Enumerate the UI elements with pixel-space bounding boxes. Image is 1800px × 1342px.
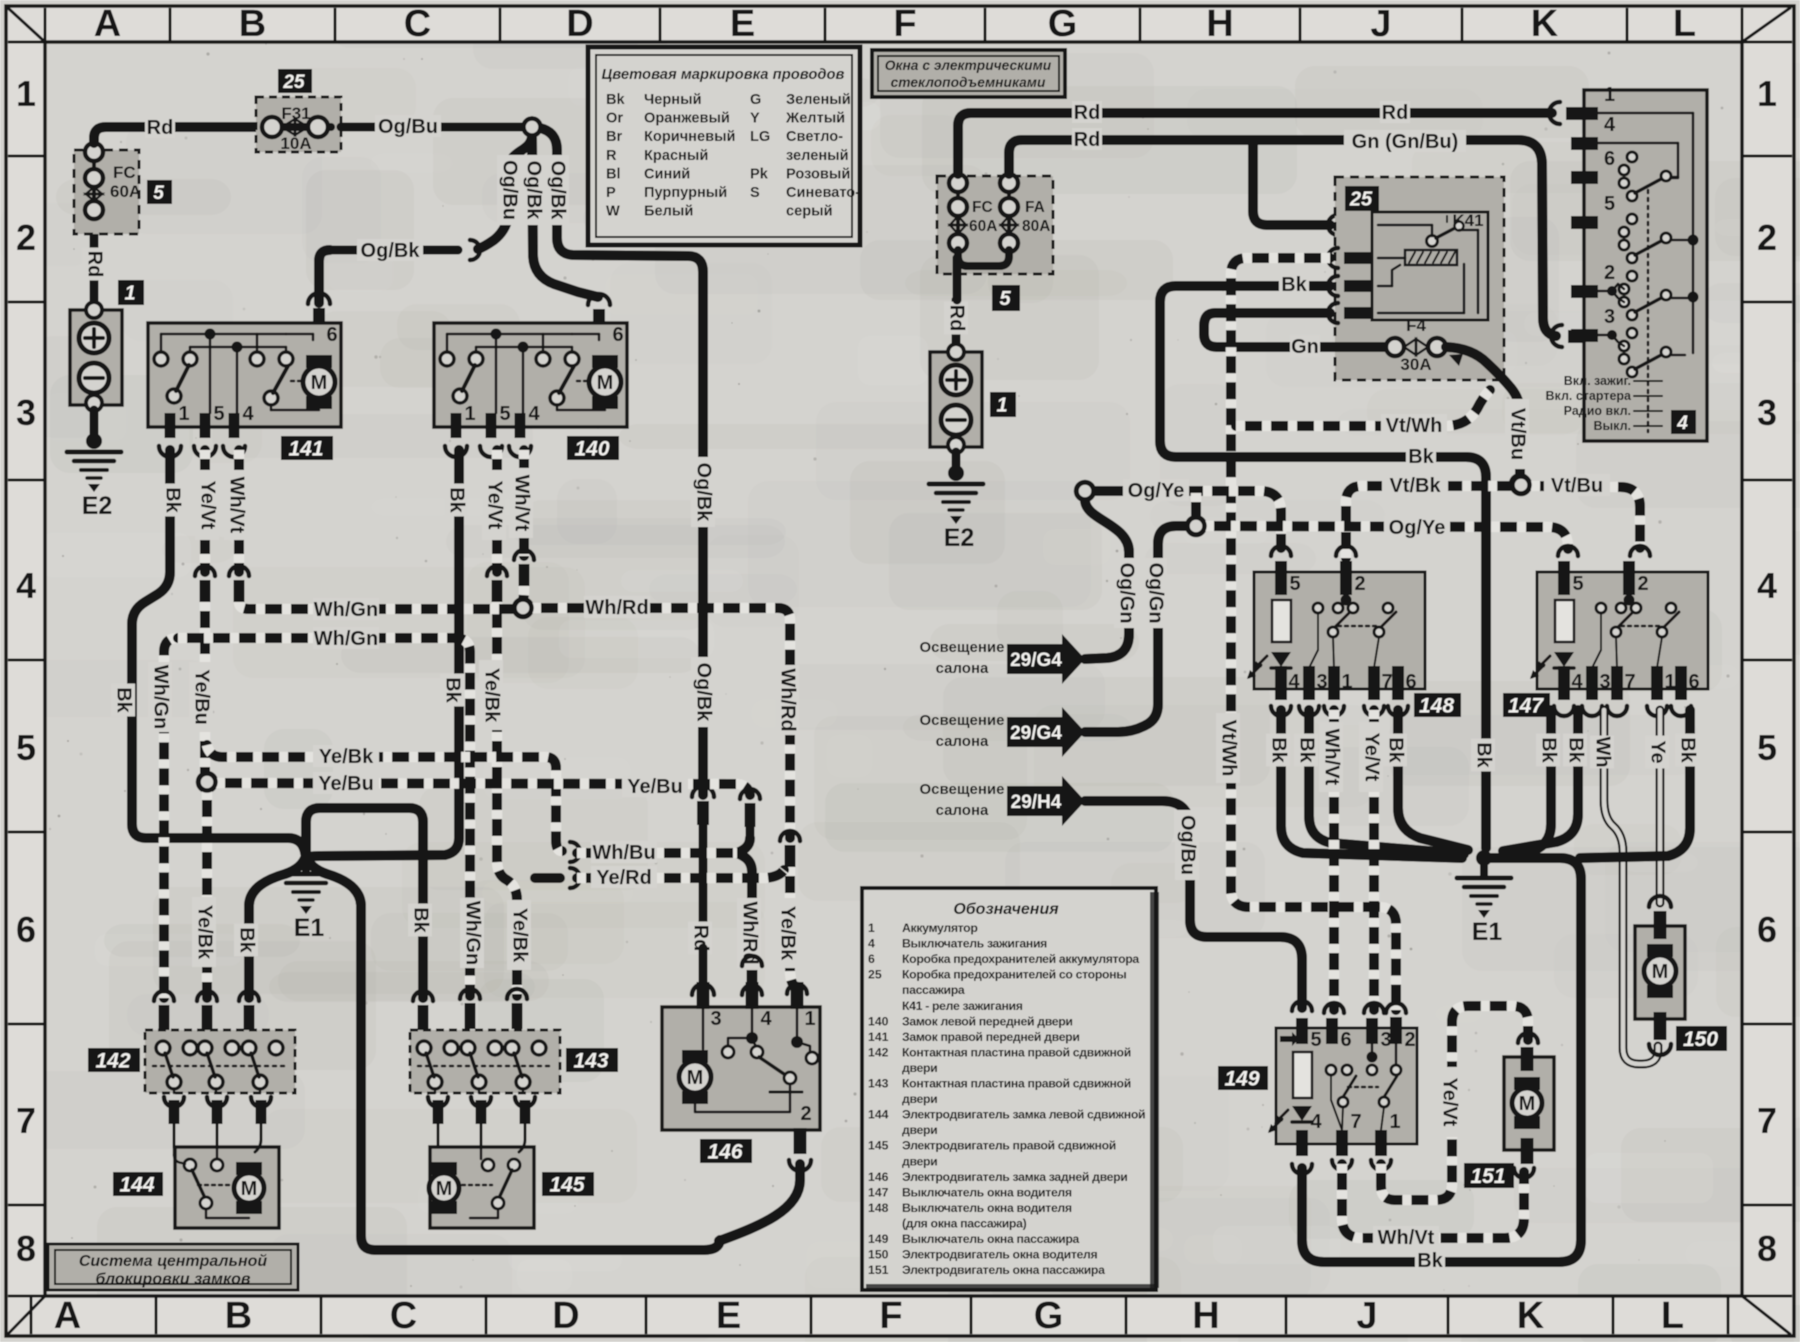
svg-text:H: H (1192, 1295, 1219, 1337)
svg-text:Выключатель окна водителя: Выключатель окна водителя (902, 1201, 1072, 1215)
svg-text:Обозначения: Обозначения (953, 901, 1059, 918)
svg-text:K: K (1531, 3, 1559, 45)
svg-text:D: D (566, 3, 593, 45)
svg-text:блокировки замков: блокировки замков (95, 1271, 250, 1288)
svg-text:F4: F4 (1406, 316, 1426, 335)
svg-text:двери: двери (902, 1154, 937, 1168)
svg-text:Gn: Gn (1291, 336, 1319, 358)
svg-text:зеленый: зеленый (786, 148, 849, 164)
svg-text:142: 142 (95, 1050, 130, 1073)
svg-text:149: 149 (868, 1232, 889, 1246)
svg-text:Og/Bk: Og/Bk (523, 161, 545, 221)
svg-text:4: 4 (1604, 114, 1616, 136)
svg-text:1: 1 (1341, 671, 1352, 693)
svg-text:Vt/Bu: Vt/Bu (1551, 475, 1603, 497)
svg-text:Bl: Bl (606, 166, 621, 182)
svg-text:25: 25 (282, 72, 305, 93)
svg-text:Вкл. зажиг.: Вкл. зажиг. (1564, 374, 1631, 388)
svg-text:Электродвигатель правой сдвижн: Электродвигатель правой сдвижной (902, 1139, 1116, 1153)
svg-text:Электродвигатель замка задней: Электродвигатель замка задней двери (902, 1170, 1128, 1184)
svg-text:5: 5 (213, 403, 224, 425)
svg-text:Vt/Bk: Vt/Bk (1389, 475, 1441, 497)
svg-text:L: L (1673, 3, 1696, 45)
svg-text:2: 2 (1757, 217, 1777, 258)
svg-text:стеклоподъемниками: стеклоподъемниками (891, 75, 1046, 90)
svg-text:5: 5 (16, 727, 36, 768)
svg-text:Wh/Vt: Wh/Vt (1321, 729, 1343, 786)
svg-text:Ye/Vt: Ye/Vt (197, 481, 219, 530)
svg-text:J: J (1356, 1295, 1377, 1337)
svg-text:Bk: Bk (1538, 737, 1560, 763)
svg-text:1: 1 (1757, 73, 1777, 114)
svg-text:5: 5 (153, 183, 164, 204)
svg-text:C: C (404, 3, 431, 45)
svg-text:1: 1 (1664, 671, 1675, 693)
svg-text:148: 148 (868, 1201, 889, 1215)
svg-text:4: 4 (760, 1008, 772, 1030)
svg-text:143: 143 (573, 1050, 608, 1073)
svg-text:5: 5 (999, 288, 1011, 310)
svg-text:Замок правой передней двери: Замок правой передней двери (902, 1030, 1080, 1044)
svg-text:Bk: Bk (1417, 1250, 1443, 1272)
svg-text:двери: двери (902, 1061, 937, 1075)
svg-text:E: E (730, 3, 755, 45)
svg-text:E2: E2 (944, 524, 975, 552)
svg-text:Освещение: Освещение (920, 639, 1005, 656)
svg-text:Ye/Bu: Ye/Bu (191, 669, 213, 725)
svg-text:Og/Bk: Og/Bk (693, 663, 715, 723)
svg-text:Контактная пластина правой сдв: Контактная пластина правой сдвижной (902, 1077, 1131, 1091)
svg-text:Og/Bu: Og/Bu (1177, 815, 1199, 875)
svg-text:6: 6 (612, 324, 623, 346)
svg-text:Bk: Bk (442, 677, 464, 703)
svg-text:143: 143 (868, 1077, 889, 1091)
svg-text:4: 4 (1571, 671, 1583, 693)
svg-text:Wh/Vt: Wh/Vt (1378, 1227, 1435, 1249)
svg-text:150: 150 (868, 1248, 889, 1262)
svg-text:Выключатель окна водителя: Выключатель окна водителя (902, 1185, 1072, 1199)
svg-text:пассажира: пассажира (902, 983, 965, 997)
svg-text:FC: FC (113, 163, 136, 182)
svg-text:J: J (1370, 3, 1391, 45)
svg-text:Wh/Gn: Wh/Gn (314, 599, 378, 621)
svg-text:салона: салона (936, 802, 989, 819)
svg-text:5: 5 (1757, 727, 1777, 768)
svg-text:4: 4 (1676, 413, 1688, 434)
svg-text:Ye/Bk: Ye/Bk (777, 906, 799, 961)
svg-text:Rd: Rd (1074, 102, 1101, 124)
svg-text:4: 4 (16, 565, 36, 606)
svg-text:Коробка предохранителей аккуму: Коробка предохранителей аккумулятора (902, 952, 1139, 966)
svg-text:Выключатель зажигания: Выключатель зажигания (902, 937, 1047, 951)
svg-text:7: 7 (1381, 671, 1392, 693)
svg-text:30A: 30A (1400, 355, 1431, 374)
svg-text:Зеленый: Зеленый (786, 92, 851, 108)
svg-text:141: 141 (868, 1030, 889, 1044)
svg-text:5: 5 (1289, 573, 1300, 595)
svg-text:Bk: Bk (1296, 737, 1318, 763)
svg-text:F31: F31 (281, 104, 310, 123)
svg-text:Vt/Bu: Vt/Bu (1507, 408, 1529, 460)
svg-text:144: 144 (868, 1108, 889, 1122)
svg-text:Электродвигатель окна пассажир: Электродвигатель окна пассажира (902, 1263, 1105, 1277)
svg-text:2: 2 (1354, 573, 1365, 595)
svg-text:FA: FA (1025, 199, 1045, 216)
svg-text:3: 3 (1599, 671, 1610, 693)
svg-text:5: 5 (499, 403, 510, 425)
svg-text:3: 3 (1757, 392, 1777, 433)
svg-text:150: 150 (1683, 1028, 1718, 1051)
svg-text:Og/Gn: Og/Gn (1145, 562, 1167, 623)
svg-text:Wh/Gn: Wh/Gn (150, 665, 172, 729)
svg-text:Выключатель окна пассажира: Выключатель окна пассажира (902, 1232, 1079, 1246)
svg-text:Bk: Bk (446, 487, 468, 513)
svg-text:M: M (1652, 961, 1669, 983)
svg-text:Bk: Bk (1385, 737, 1407, 763)
svg-text:8: 8 (16, 1228, 36, 1269)
svg-text:Bk: Bk (236, 927, 258, 953)
svg-text:Электродвигатель замка левой с: Электродвигатель замка левой сдвижной (902, 1108, 1145, 1122)
svg-text:6: 6 (1340, 1029, 1351, 1051)
svg-text:D: D (552, 1295, 579, 1337)
svg-text:3: 3 (16, 392, 36, 433)
svg-text:салона: салона (936, 733, 989, 750)
svg-text:Освещение: Освещение (920, 712, 1005, 729)
svg-text:Og/Ye: Og/Ye (1128, 480, 1185, 502)
svg-text:A: A (94, 3, 121, 45)
svg-text:Вкл. стартера: Вкл. стартера (1546, 389, 1633, 403)
svg-text:Ye/Bk: Ye/Bk (481, 668, 503, 723)
svg-text:Bk: Bk (113, 687, 135, 713)
svg-text:147: 147 (868, 1185, 889, 1199)
svg-text:7: 7 (1350, 1111, 1361, 1133)
svg-text:G: G (750, 92, 761, 108)
svg-text:145: 145 (549, 1174, 584, 1197)
svg-text:6: 6 (1757, 909, 1777, 950)
svg-text:141: 141 (288, 438, 323, 461)
svg-text:Аккумулятор: Аккумулятор (902, 921, 978, 935)
svg-text:10A: 10A (280, 134, 311, 153)
svg-text:Og/Bk: Og/Bk (547, 161, 569, 221)
svg-text:7: 7 (16, 1100, 36, 1141)
svg-text:M: M (597, 372, 614, 394)
svg-text:двери: двери (902, 1123, 937, 1137)
svg-text:Rd: Rd (84, 251, 106, 278)
svg-text:Ye/Bu: Ye/Bu (318, 773, 374, 795)
svg-text:2: 2 (1637, 573, 1648, 595)
svg-text:Розовый: Розовый (786, 166, 850, 182)
svg-text:148: 148 (1419, 695, 1454, 718)
svg-text:1: 1 (804, 1008, 815, 1030)
svg-text:6: 6 (868, 952, 875, 966)
svg-text:Bk: Bk (1677, 737, 1699, 763)
svg-text:Окна с электрическими: Окна с электрическими (885, 58, 1052, 73)
svg-text:Og/Ye: Og/Ye (1389, 517, 1446, 539)
svg-text:29/G4: 29/G4 (1010, 650, 1062, 671)
svg-text:146: 146 (707, 1141, 742, 1164)
svg-text:Wh/Gn: Wh/Gn (462, 901, 484, 965)
svg-text:1: 1 (1389, 1111, 1400, 1133)
svg-text:6: 6 (1688, 671, 1699, 693)
svg-text:Белый: Белый (644, 204, 693, 220)
svg-text:Ye/Bk: Ye/Bk (319, 746, 374, 768)
svg-text:Wh/Vt: Wh/Vt (511, 475, 533, 532)
svg-text:(для окна пассажира): (для окна пассажира) (902, 1216, 1027, 1230)
svg-text:Wh/Vt: Wh/Vt (226, 477, 248, 534)
svg-text:Выкл.: Выкл. (1593, 419, 1631, 433)
svg-text:Og/Bu: Og/Bu (499, 160, 521, 220)
svg-text:1: 1 (868, 921, 875, 935)
svg-text:серый: серый (786, 204, 833, 220)
svg-text:Ye/Bk: Ye/Bk (194, 905, 216, 960)
svg-text:Og/Bk: Og/Bk (361, 240, 421, 262)
svg-text:Ye/Vt: Ye/Vt (1361, 733, 1383, 782)
svg-text:6: 6 (16, 909, 36, 950)
svg-text:Электродвигатель окна водителя: Электродвигатель окна водителя (902, 1248, 1097, 1262)
svg-text:Синий: Синий (644, 166, 690, 182)
svg-text:Wh: Wh (1592, 736, 1614, 767)
svg-text:Оранжевый: Оранжевый (644, 111, 730, 127)
svg-text:Rd: Rd (1382, 102, 1409, 124)
svg-text:4: 4 (528, 403, 540, 425)
svg-text:G: G (1034, 1295, 1064, 1337)
svg-text:M: M (687, 1067, 704, 1089)
svg-text:142: 142 (868, 1045, 889, 1059)
svg-text:Освещение: Освещение (920, 781, 1005, 798)
svg-text:Система центральной: Система центральной (79, 1253, 268, 1270)
svg-text:A: A (54, 1295, 81, 1337)
svg-text:5: 5 (1604, 193, 1615, 215)
svg-text:Og/Bu: Og/Bu (378, 116, 438, 138)
svg-text:6: 6 (1604, 148, 1615, 170)
svg-text:140: 140 (868, 1014, 889, 1028)
svg-text:C: C (390, 1295, 417, 1337)
svg-text:1: 1 (996, 395, 1007, 417)
svg-text:Wh/Rd: Wh/Rd (777, 668, 799, 731)
svg-text:B: B (239, 3, 266, 45)
svg-text:7: 7 (1757, 1100, 1777, 1141)
svg-text:5: 5 (1572, 573, 1583, 595)
svg-text:145: 145 (868, 1139, 889, 1153)
svg-text:3: 3 (1380, 1029, 1391, 1051)
svg-text:Ye/Rd: Ye/Rd (596, 867, 652, 889)
svg-text:2: 2 (1604, 262, 1615, 284)
svg-text:Желтый: Желтый (785, 111, 845, 127)
svg-text:Wh/Bu: Wh/Bu (592, 842, 655, 864)
svg-text:FC: FC (972, 199, 993, 216)
svg-text:4: 4 (1757, 565, 1777, 606)
svg-text:K: K (1517, 1295, 1545, 1337)
svg-text:1: 1 (16, 73, 36, 114)
svg-text:W: W (606, 204, 620, 220)
svg-text:29/G4: 29/G4 (1010, 723, 1062, 744)
svg-text:1: 1 (124, 283, 135, 305)
svg-text:E: E (716, 1295, 741, 1337)
svg-text:E1: E1 (1472, 918, 1503, 946)
svg-text:Ye: Ye (1647, 740, 1669, 763)
svg-text:К41 - реле зажигания: К41 - реле зажигания (902, 999, 1023, 1013)
svg-text:Wh/Rd: Wh/Rd (585, 597, 648, 619)
svg-text:4: 4 (1310, 1111, 1322, 1133)
svg-text:Or: Or (606, 111, 623, 127)
svg-text:Светло-: Светло- (786, 129, 843, 145)
svg-text:60A: 60A (110, 182, 141, 201)
svg-text:1: 1 (1604, 84, 1615, 106)
svg-text:29/H4: 29/H4 (1011, 792, 1062, 813)
svg-text:6: 6 (1405, 671, 1416, 693)
svg-text:Og/Bk: Og/Bk (693, 463, 715, 523)
svg-text:3: 3 (1316, 671, 1327, 693)
svg-text:4: 4 (868, 937, 875, 951)
svg-text:151: 151 (1470, 1165, 1505, 1188)
svg-text:Замок левой передней двери: Замок левой передней двери (902, 1014, 1073, 1028)
svg-text:Bk: Bk (1473, 742, 1495, 768)
svg-text:G: G (1048, 3, 1078, 45)
svg-text:Bk: Bk (606, 92, 626, 108)
svg-text:F: F (893, 3, 916, 45)
svg-text:2: 2 (1404, 1029, 1415, 1051)
svg-text:двери: двери (902, 1092, 937, 1106)
svg-text:Rd: Rd (147, 117, 174, 139)
svg-text:Bk: Bk (1268, 737, 1290, 763)
svg-text:Ye/Bk: Ye/Bk (509, 908, 531, 963)
svg-text:Vt/Wh: Vt/Wh (1218, 720, 1240, 777)
svg-text:Y: Y (750, 111, 760, 127)
svg-text:Rd: Rd (946, 305, 968, 332)
svg-text:Синевато-: Синевато- (786, 185, 860, 201)
svg-text:LG: LG (750, 129, 770, 145)
svg-text:M: M (1519, 1093, 1536, 1115)
svg-text:E1: E1 (294, 914, 325, 942)
svg-text:E2: E2 (82, 492, 113, 520)
svg-text:P: P (606, 185, 616, 201)
svg-text:B: B (225, 1295, 252, 1337)
svg-text:R: R (606, 148, 617, 164)
svg-text:Og/Gn: Og/Gn (1116, 562, 1138, 623)
svg-text:Br: Br (606, 129, 623, 145)
svg-text:Bk: Bk (1408, 446, 1434, 468)
svg-text:6: 6 (326, 324, 337, 346)
svg-text:Радио вкл.: Радио вкл. (1564, 404, 1631, 418)
svg-text:Контактная пластина правой сдв: Контактная пластина правой сдвижной (902, 1045, 1131, 1059)
svg-text:25: 25 (1349, 189, 1373, 211)
svg-text:144: 144 (119, 1174, 154, 1197)
svg-text:Pk: Pk (750, 166, 769, 182)
svg-text:Коричневый: Коричневый (644, 129, 736, 145)
svg-text:Bk: Bk (162, 487, 184, 513)
svg-text:7: 7 (1624, 671, 1635, 693)
svg-text:8: 8 (1757, 1228, 1777, 1269)
svg-text:2: 2 (800, 1103, 811, 1125)
svg-text:Ye/Vt: Ye/Vt (484, 481, 506, 530)
svg-text:Bk: Bk (1281, 274, 1307, 296)
svg-text:M: M (436, 1178, 453, 1200)
svg-text:Gn (Gn/Bu): Gn (Gn/Bu) (1352, 131, 1459, 153)
svg-text:151: 151 (868, 1263, 889, 1277)
svg-text:Пурпурный: Пурпурный (644, 185, 727, 201)
svg-text:Vt/Wh: Vt/Wh (1386, 415, 1443, 437)
svg-text:Красный: Красный (644, 148, 708, 164)
svg-text:146: 146 (868, 1170, 889, 1184)
svg-text:4: 4 (242, 403, 254, 425)
svg-text:149: 149 (1224, 1068, 1259, 1091)
svg-text:4: 4 (1288, 671, 1300, 693)
svg-text:147: 147 (1508, 695, 1544, 718)
svg-text:Bk: Bk (410, 907, 432, 933)
svg-text:1: 1 (464, 403, 475, 425)
svg-text:60A: 60A (969, 218, 997, 235)
svg-text:3: 3 (1604, 306, 1615, 328)
svg-text:Bk: Bk (1565, 737, 1587, 763)
svg-text:140: 140 (574, 438, 609, 461)
svg-text:2: 2 (16, 217, 36, 258)
svg-text:Ye/Vt: Ye/Vt (1439, 1078, 1461, 1127)
svg-text:M: M (311, 372, 328, 394)
svg-text:L: L (1661, 1295, 1684, 1337)
svg-text:Ye/Bu: Ye/Bu (627, 776, 683, 798)
svg-text:S: S (750, 185, 760, 201)
svg-text:M: M (241, 1178, 258, 1200)
svg-text:3: 3 (710, 1008, 721, 1030)
svg-text:H: H (1206, 3, 1233, 45)
svg-text:Черный: Черный (644, 92, 702, 108)
svg-text:Коробка предохранителей со сто: Коробка предохранителей со стороны (902, 968, 1126, 982)
svg-text:Rd: Rd (1074, 129, 1101, 151)
svg-text:салона: салона (936, 660, 989, 677)
svg-text:1: 1 (178, 403, 189, 425)
svg-text:Wh/Gn: Wh/Gn (314, 628, 378, 650)
svg-text:5: 5 (1310, 1029, 1321, 1051)
svg-text:25: 25 (868, 968, 882, 982)
svg-text:F: F (879, 1295, 902, 1337)
svg-text:80A: 80A (1022, 218, 1050, 235)
svg-text:Цветовая маркировка проводов: Цветовая маркировка проводов (601, 67, 844, 83)
